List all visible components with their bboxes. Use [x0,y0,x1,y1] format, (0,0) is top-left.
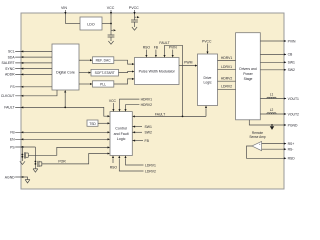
svg-text:SW1: SW1 [288,61,295,65]
svg-text:Stage: Stage [244,77,253,81]
svg-text:SW1: SW1 [145,125,152,129]
svg-text:FB: FB [154,46,159,50]
svg-text:Logic: Logic [203,81,211,85]
svg-text:SOFT-START: SOFT-START [95,71,115,75]
svg-text:CLKOUT: CLKOUT [1,94,15,98]
svg-text:-: - [259,148,260,151]
svg-text:Digital Core: Digital Core [56,71,75,75]
svg-text:RSD: RSD [288,157,296,161]
svg-text:RS+: RS+ [288,142,295,146]
svg-text:RS-: RS- [288,148,294,152]
svg-text:TSD: TSD [89,122,96,126]
svg-text:PWM: PWM [184,61,192,65]
svg-text:SW2: SW2 [288,68,295,72]
svg-text:VCC: VCC [109,99,117,103]
svg-text:and Fault: and Fault [114,132,129,136]
svg-text:HDRV1: HDRV1 [221,56,233,60]
svg-text:SW2: SW2 [145,131,152,135]
svg-text:LDO: LDO [87,22,95,26]
svg-text:PVCC: PVCC [202,40,212,44]
svg-text:REF. DAC: REF. DAC [96,58,112,62]
svg-text:FAULT: FAULT [155,112,165,116]
svg-text:Drive: Drive [204,76,212,80]
svg-text:LDRV1: LDRV1 [221,65,232,69]
svg-text:LDRV1: LDRV1 [145,163,156,167]
svg-text:FB: FB [145,139,150,143]
svg-text:VIN: VIN [61,6,67,10]
svg-text:PVIN: PVIN [288,39,296,43]
svg-text:HDRV2: HDRV2 [141,103,153,107]
svg-text:VCC: VCC [107,6,115,10]
svg-text:Power: Power [243,72,253,76]
svg-text:L1: L1 [270,92,274,96]
svg-text:FS: FS [10,85,15,89]
svg-text:SYNC: SYNC [5,67,15,71]
svg-text:Control: Control [115,127,127,131]
svg-text:PVCC: PVCC [129,6,139,10]
svg-text:SDA: SDA [8,55,16,59]
svg-text:PVIN: PVIN [169,46,177,50]
svg-text:Logic: Logic [117,137,126,141]
svg-text:POR: POR [58,159,66,163]
svg-text:SALERT: SALERT [1,61,14,65]
svg-text:LDRV2: LDRV2 [221,85,232,89]
svg-text:Pulse Width Modulator: Pulse Width Modulator [139,69,176,73]
svg-text:PGND: PGND [288,123,298,127]
svg-text:RSO: RSO [110,165,118,169]
svg-text:ADDR: ADDR [5,73,15,77]
svg-text:HDRV2: HDRV2 [221,77,233,81]
svg-text:FAULT: FAULT [159,41,169,45]
svg-text:PLL: PLL [100,82,106,86]
svg-text:PS: PS [10,145,15,149]
svg-text:FB: FB [10,131,15,135]
svg-text:CB: CB [288,53,293,57]
svg-text:L2: L2 [270,108,274,112]
svg-text:EN: EN [10,138,15,142]
svg-text:AGND: AGND [5,175,15,179]
svg-text:FAULT: FAULT [4,106,14,110]
svg-text:Sense Amp: Sense Amp [249,135,266,139]
svg-text:VOUT2: VOUT2 [288,112,299,116]
svg-text:RSO: RSO [143,46,151,50]
svg-text:HDRV1: HDRV1 [141,97,153,101]
svg-text:Drivers and: Drivers and [239,67,256,71]
svg-text:SCL: SCL [8,50,15,54]
svg-text:VOUT1: VOUT1 [288,97,299,101]
svg-text:LDRV2: LDRV2 [145,169,156,173]
